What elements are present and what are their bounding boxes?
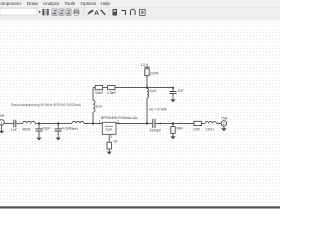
wire 220R to supply node [146,76,148,89]
toolbar separator [83,9,85,17]
junction base node [92,122,94,124]
resistor 3.3kR [108,86,115,90]
svg-text:2: 2 [223,122,225,126]
ground under 22pF [36,138,41,141]
toolbar separator [108,9,110,17]
svg-text:Tools: Tools [65,1,76,6]
inductor 12nH [205,121,216,123]
window background [0,0,280,210]
junction output node [172,122,174,124]
wire 1R to ground [108,149,110,152]
S2P squiggle [105,125,113,127]
wire end dot after cap [160,123,162,125]
wire choke down to collector node [146,98,148,124]
svg-text:3: 3 [110,135,112,139]
inductor 1uH collector choke [147,88,149,97]
wire 22R to L3 [202,122,206,124]
resistor 33kR [95,86,102,90]
wire C1 to L1 [16,122,22,124]
svg-text:33kR: 33kR [95,91,104,95]
ground under emitter resistor [107,152,112,155]
svg-text:75R: 75R [221,116,228,120]
svg-text:220R: 220R [150,71,159,75]
bias rail wire left [93,87,95,89]
svg-text:1R: 1R [113,139,118,143]
capacitor 4.7pF shunt [55,123,62,137]
wire pin2 to coupling cap [116,122,152,124]
bias rail wire right [115,87,173,89]
svg-text:A: A [94,10,99,17]
toolbar icon group import/export/copy [52,9,71,15]
junction supply node [146,87,148,89]
wire pin3 down [108,134,110,142]
wire cap to output node [156,122,195,124]
toolbar icon component [113,9,118,16]
svg-text:1: 1 [99,119,101,123]
toolbar icon corner wire [122,11,126,16]
toolbar icon pencil [87,10,93,16]
svg-text:Uc = 5 Volt: Uc = 5 Volt [149,108,166,112]
svg-text:Component: Component [0,1,21,6]
wire base node up to choke [92,112,94,123]
svg-text:2200pF: 2200pF [149,128,161,132]
svg-text:3.3kR: 3.3kR [107,91,117,95]
svg-text:12nH: 12nH [205,127,214,131]
svg-text:75nH: 75nH [70,127,79,131]
wire L2 to base node [84,122,102,124]
toolbar icon line [101,10,106,15]
ground under 56R [170,136,175,139]
capacitor 2200pF [153,119,155,128]
svg-text:1: 1 [1,121,3,125]
svg-text:Help: Help [101,1,111,6]
bottom window border [0,206,280,208]
svg-text:1uH: 1uH [96,104,103,108]
svg-text:45nH: 45nH [22,127,31,131]
junction node1 [38,122,40,124]
svg-text:Draw: Draw [27,1,38,6]
svg-text:S2P: S2P [105,128,113,132]
svg-text:22R: 22R [193,127,200,131]
schematic grid area [0,21,280,207]
wire L1 to node1 [35,122,58,124]
svg-text:1nF: 1nF [178,89,184,93]
capacitor 22pF shunt [36,123,43,137]
svg-text:Rauschanpassung 90 MHz BFR193: Rauschanpassung 90 MHz BFR193 5V/20mA [11,103,82,107]
wire choke to bias rail [92,88,94,101]
svg-text:BFR193V5-PV20mA.s2p: BFR193V5-PV20mA.s2p [101,116,138,120]
junction decoupling node [172,87,174,89]
capacitor 1nF [14,120,16,128]
menu bar [0,0,280,8]
two-port S2P box [102,122,116,134]
svg-text:56R: 56R [176,127,183,131]
inductor 1uH base choke [93,100,95,112]
svg-text:22pF: 22pF [42,126,50,130]
junction node2 [57,122,59,124]
svg-text:Analyze: Analyze [43,1,60,6]
port P2 75R [221,121,226,131]
toolbar icon boxed component [140,9,146,15]
capacitor 1nF decoupling [170,88,177,100]
svg-text:1uH: 1uH [150,89,157,93]
inductor 75nH [72,121,84,123]
svg-text:50R: 50R [0,114,5,118]
wire node2 to L2 [58,122,72,124]
wire L3 to port2 [216,122,221,124]
toolbar icon printer [73,9,80,15]
toolbar combo box [0,8,37,15]
toolbar [0,8,280,21]
wire 33kR to 3.3kR [103,87,108,89]
junction collector node [146,122,148,124]
svg-text:1nF: 1nF [11,128,17,132]
svg-text:Options: Options [81,1,98,6]
toolbar icon arch [131,9,136,15]
wire port1 to C1 [4,122,13,124]
resistor 220R [145,69,149,76]
supply terminal [144,67,150,69]
inductor 45nH [23,121,35,123]
toolbar icon save [42,9,48,15]
resistor 22R series [194,121,202,125]
ground under decoupling cap [170,99,175,102]
resistor 56R shunt [171,123,175,136]
ground under 4.7pF [56,138,61,141]
port P1 50R [0,120,4,134]
resistor 1R emitter [107,142,111,149]
wire end dot pin2 [118,123,120,125]
svg-text:12 V: 12 V [141,63,149,67]
